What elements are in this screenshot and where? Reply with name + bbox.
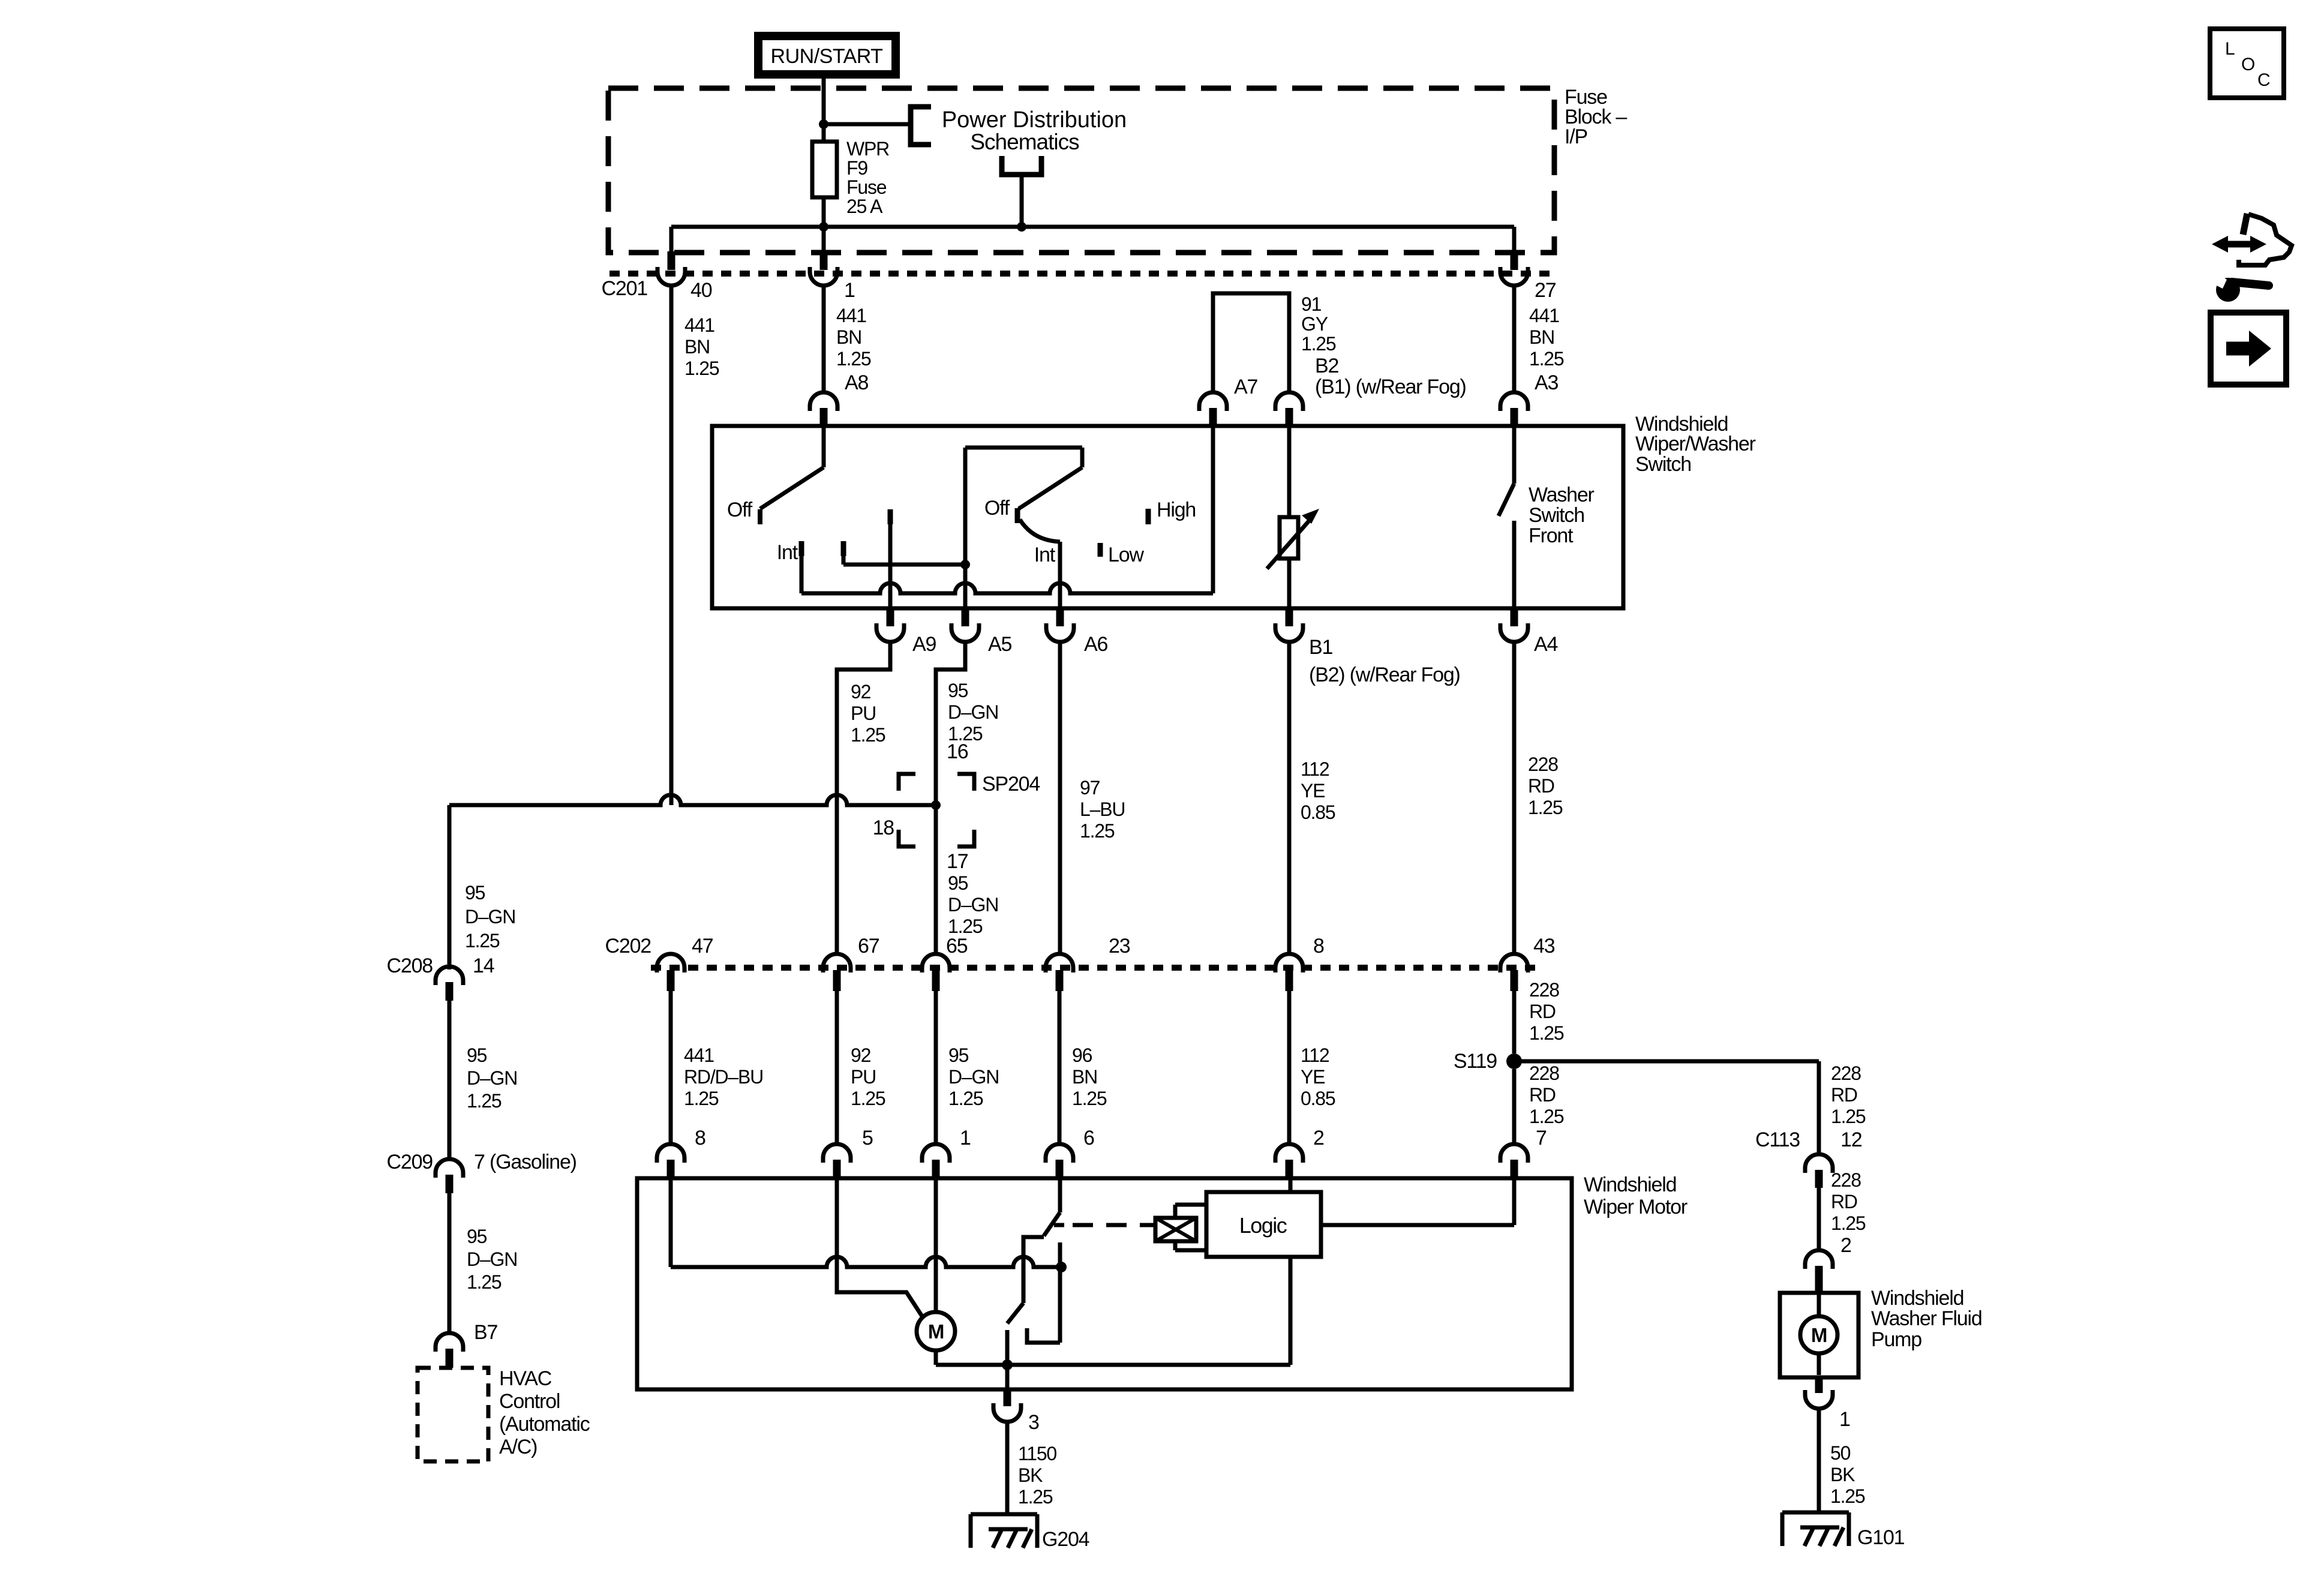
svg-text:C208: C208 — [387, 954, 433, 977]
svg-text:I/P: I/P — [1565, 125, 1587, 148]
svg-text:1.25: 1.25 — [1831, 1106, 1866, 1127]
svg-text:RD: RD — [1529, 1084, 1556, 1106]
svg-text:BK: BK — [1018, 1464, 1043, 1486]
svg-text:1.25: 1.25 — [467, 1090, 502, 1112]
svg-text:High: High — [1157, 499, 1196, 521]
svg-text:Fuse: Fuse — [846, 176, 887, 198]
svg-text:1.25: 1.25 — [684, 1088, 719, 1109]
svg-text:441: 441 — [684, 1044, 714, 1066]
svg-text:RD/D–BU: RD/D–BU — [684, 1066, 763, 1088]
svg-text:C209: C209 — [387, 1151, 433, 1173]
svg-text:441: 441 — [1529, 305, 1559, 326]
svg-text:7: 7 — [1536, 1127, 1547, 1149]
svg-text:B2: B2 — [1315, 355, 1338, 377]
svg-text:1.25: 1.25 — [1529, 348, 1564, 370]
svg-text:BN: BN — [684, 336, 710, 358]
svg-text:Schematics: Schematics — [970, 130, 1079, 154]
svg-text:228: 228 — [1831, 1169, 1861, 1191]
svg-text:(Automatic: (Automatic — [499, 1413, 590, 1436]
svg-text:Control: Control — [499, 1390, 560, 1413]
svg-text:F9: F9 — [846, 157, 867, 179]
svg-text:47: 47 — [692, 935, 713, 957]
svg-text:91: 91 — [1301, 293, 1322, 315]
svg-text:C201: C201 — [602, 277, 648, 300]
svg-text:228: 228 — [1529, 979, 1559, 1001]
svg-text:Front: Front — [1529, 524, 1574, 547]
svg-text:D–GN: D–GN — [467, 1067, 517, 1089]
svg-text:Pump: Pump — [1871, 1328, 1921, 1351]
svg-text:1.25: 1.25 — [467, 1271, 502, 1293]
svg-text:A3: A3 — [1535, 371, 1558, 394]
svg-text:S119: S119 — [1454, 1050, 1497, 1073]
svg-text:D–GN: D–GN — [465, 906, 515, 927]
svg-text:(B1) (w/Rear Fog): (B1) (w/Rear Fog) — [1315, 376, 1466, 398]
svg-text:A/C): A/C) — [499, 1436, 537, 1458]
svg-text:Int: Int — [1034, 544, 1056, 566]
svg-text:RD: RD — [1528, 775, 1554, 797]
svg-text:Low: Low — [1108, 544, 1144, 566]
svg-text:97: 97 — [1080, 777, 1100, 798]
svg-text:92: 92 — [851, 681, 871, 703]
svg-text:1.25: 1.25 — [1301, 333, 1336, 355]
svg-text:1.25: 1.25 — [1072, 1088, 1107, 1109]
svg-text:A8: A8 — [845, 371, 868, 394]
svg-text:1.25: 1.25 — [851, 724, 885, 746]
svg-text:Wiper/Washer: Wiper/Washer — [1635, 433, 1756, 455]
svg-text:YE: YE — [1301, 780, 1325, 801]
svg-text:95: 95 — [948, 872, 968, 894]
svg-text:Windshield: Windshield — [1871, 1287, 1963, 1310]
svg-text:1.25: 1.25 — [1831, 1212, 1866, 1234]
svg-text:441: 441 — [836, 305, 866, 326]
svg-text:1.25: 1.25 — [1830, 1485, 1865, 1507]
svg-text:1.25: 1.25 — [851, 1088, 885, 1109]
svg-text:12: 12 — [1840, 1128, 1862, 1151]
svg-text:1.25: 1.25 — [1528, 797, 1563, 818]
svg-text:43: 43 — [1533, 935, 1555, 957]
svg-text:2: 2 — [1313, 1127, 1324, 1149]
svg-text:27: 27 — [1535, 279, 1556, 302]
svg-text:Int: Int — [777, 541, 798, 564]
svg-text:C: C — [2257, 70, 2270, 90]
svg-text:Washer Fluid: Washer Fluid — [1871, 1307, 1982, 1330]
svg-text:0.85: 0.85 — [1301, 801, 1335, 823]
svg-text:Switch: Switch — [1635, 453, 1691, 476]
svg-text:Off: Off — [984, 497, 1010, 520]
svg-text:1.25: 1.25 — [684, 358, 719, 379]
svg-text:B7: B7 — [474, 1321, 497, 1344]
svg-text:L–BU: L–BU — [1080, 798, 1125, 820]
svg-text:SP204: SP204 — [982, 773, 1040, 795]
svg-text:C202: C202 — [605, 935, 651, 957]
svg-text:95: 95 — [465, 882, 485, 903]
svg-text:D–GN: D–GN — [948, 701, 998, 723]
svg-text:3: 3 — [1028, 1411, 1039, 1434]
svg-text:L: L — [2225, 39, 2235, 59]
svg-text:C113: C113 — [1755, 1128, 1800, 1151]
svg-text:228: 228 — [1528, 754, 1558, 775]
svg-text:PU: PU — [851, 1066, 876, 1088]
svg-text:25 A: 25 A — [846, 196, 883, 217]
svg-text:BN: BN — [1529, 326, 1554, 348]
svg-text:228: 228 — [1529, 1062, 1559, 1084]
svg-text:D–GN: D–GN — [948, 894, 998, 915]
svg-text:95: 95 — [467, 1044, 487, 1066]
svg-text:95: 95 — [467, 1226, 487, 1247]
svg-text:96: 96 — [1072, 1044, 1092, 1066]
svg-text:14: 14 — [473, 954, 494, 977]
svg-text:Off: Off — [727, 499, 753, 521]
svg-text:16: 16 — [947, 740, 968, 763]
svg-text:1.25: 1.25 — [1080, 820, 1115, 842]
svg-text:Windshield: Windshield — [1584, 1173, 1676, 1196]
svg-text:A5: A5 — [988, 633, 1011, 656]
svg-text:D–GN: D–GN — [467, 1248, 517, 1270]
svg-text:1: 1 — [1839, 1408, 1850, 1431]
svg-text:O: O — [2241, 55, 2254, 74]
svg-text:8: 8 — [1313, 935, 1324, 957]
svg-text:1: 1 — [960, 1127, 971, 1149]
svg-text:40: 40 — [690, 279, 712, 302]
svg-text:112: 112 — [1301, 758, 1329, 780]
svg-text:BK: BK — [1830, 1464, 1855, 1485]
svg-text:1.25: 1.25 — [465, 930, 500, 951]
svg-text:1.25: 1.25 — [948, 1088, 983, 1109]
svg-text:RD: RD — [1529, 1001, 1556, 1022]
svg-text:8: 8 — [695, 1127, 705, 1149]
svg-text:1.25: 1.25 — [1529, 1022, 1564, 1044]
svg-text:23: 23 — [1109, 935, 1130, 957]
svg-text:95: 95 — [948, 680, 968, 701]
svg-text:7 (Gasoline): 7 (Gasoline) — [474, 1151, 577, 1173]
svg-text:RUN/START: RUN/START — [771, 45, 883, 68]
svg-text:92: 92 — [851, 1044, 871, 1066]
svg-text:A4: A4 — [1534, 633, 1557, 656]
svg-text:Logic: Logic — [1239, 1213, 1287, 1238]
svg-text:A9: A9 — [912, 633, 936, 656]
svg-text:67: 67 — [858, 935, 879, 957]
svg-text:Power Distribution: Power Distribution — [942, 107, 1127, 133]
svg-text:17: 17 — [947, 850, 968, 873]
svg-text:1.25: 1.25 — [1018, 1486, 1053, 1508]
svg-text:D–GN: D–GN — [948, 1066, 999, 1088]
svg-text:GY: GY — [1301, 313, 1328, 335]
svg-text:6: 6 — [1083, 1127, 1094, 1149]
svg-text:1.25: 1.25 — [836, 348, 871, 370]
svg-text:112: 112 — [1301, 1044, 1329, 1066]
svg-text:B1: B1 — [1309, 636, 1332, 659]
svg-text:0.85: 0.85 — [1301, 1088, 1335, 1109]
svg-text:1150: 1150 — [1018, 1443, 1056, 1464]
svg-text:M: M — [928, 1320, 944, 1343]
svg-text:WPR: WPR — [846, 138, 889, 160]
svg-text:65: 65 — [946, 935, 968, 957]
svg-text:1.25: 1.25 — [948, 915, 983, 937]
svg-text:95: 95 — [948, 1044, 969, 1066]
svg-text:Wiper Motor: Wiper Motor — [1584, 1196, 1688, 1218]
svg-text:BN: BN — [1072, 1066, 1097, 1088]
svg-text:BN: BN — [836, 326, 861, 348]
svg-text:441: 441 — [684, 314, 714, 336]
svg-text:50: 50 — [1830, 1442, 1851, 1464]
svg-text:PU: PU — [851, 703, 876, 724]
svg-text:1.25: 1.25 — [1529, 1106, 1564, 1127]
svg-text:M: M — [1811, 1324, 1827, 1346]
svg-text:228: 228 — [1831, 1062, 1861, 1084]
svg-text:Switch: Switch — [1529, 504, 1584, 527]
svg-text:5: 5 — [862, 1127, 873, 1149]
svg-text:RD: RD — [1831, 1191, 1857, 1212]
svg-text:HVAC: HVAC — [499, 1367, 552, 1390]
svg-text:RD: RD — [1831, 1084, 1857, 1106]
svg-text:G204: G204 — [1042, 1528, 1089, 1551]
svg-text:(B2) (w/Rear Fog): (B2) (w/Rear Fog) — [1309, 664, 1460, 686]
svg-text:YE: YE — [1301, 1066, 1325, 1088]
svg-text:2: 2 — [1840, 1234, 1851, 1257]
svg-text:G101: G101 — [1857, 1526, 1905, 1549]
svg-text:A6: A6 — [1084, 633, 1107, 656]
svg-text:18: 18 — [873, 816, 894, 839]
svg-text:A7: A7 — [1234, 376, 1257, 398]
svg-text:Washer: Washer — [1529, 484, 1595, 506]
svg-text:1: 1 — [844, 279, 855, 302]
